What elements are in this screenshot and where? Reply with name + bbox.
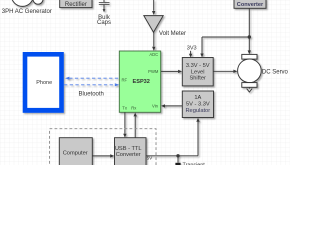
svg-text:Computer: Computer xyxy=(63,150,88,156)
svg-text:Level: Level xyxy=(191,69,205,75)
svg-text:USB - TTL: USB - TTL xyxy=(115,146,142,152)
junction: 5V rail node xyxy=(176,154,179,157)
junction: converter 5V node xyxy=(248,35,251,38)
level shifter U2: 3.3V - 5V Level Shifter xyxy=(182,58,213,86)
regulator U3: 1A 5V-3.3V Regulator xyxy=(182,91,213,118)
wire: 3V3 stub into level shifter LV pin xyxy=(190,51,192,54)
wire: regulator 3.3V out to ESP32 Vin xyxy=(165,105,183,107)
capacitor: bulk caps plates xyxy=(99,2,110,4)
motor M1: DC Servo body circle xyxy=(238,59,262,83)
volt meter triangle xyxy=(144,16,163,33)
wire: 5V rail up into regulator input xyxy=(197,122,199,156)
wire: USB-TTL up to ESP32 Rx xyxy=(134,116,136,138)
ground: open arrow below DC servo xyxy=(247,87,253,92)
wire: elbow down into level shifter HV pin xyxy=(201,37,203,54)
svg-text:PWM: PWM xyxy=(148,69,159,74)
svg-text:Rectifier: Rectifier xyxy=(65,2,87,8)
wire: 5V node horizontal to level shifter elbow xyxy=(202,36,249,38)
computer block xyxy=(59,138,92,170)
svg-text:Vin: Vin xyxy=(152,104,159,109)
generator G1 shaft circle xyxy=(33,0,43,4)
svg-text:Converter: Converter xyxy=(116,152,141,158)
svg-text:Transient: Transient xyxy=(183,162,206,165)
wire: level shifter to DC servo xyxy=(213,70,233,72)
svg-text:Volt Meter: Volt Meter xyxy=(159,31,186,37)
svg-text:Phone: Phone xyxy=(36,80,52,86)
svg-text:Shifter: Shifter xyxy=(189,76,206,82)
svg-text:1A: 1A xyxy=(194,95,201,101)
wire: 5V node down to DC servo xyxy=(248,37,250,51)
motor M1: DC Servo top terminal xyxy=(242,54,257,59)
wire: volt meter to ESP32 ADC xyxy=(153,32,155,47)
wire: bluetooth link ESP32 to phone (dashed, arrow at phone) xyxy=(69,77,119,79)
wire: computer to USB-TTL converter xyxy=(92,155,110,157)
svg-text:ADC: ADC xyxy=(149,52,158,57)
motor M1: DC Servo bottom terminal xyxy=(242,83,257,88)
wire: bluetooth link phone to ESP32 RF (dashed, arrow at ESP32) xyxy=(64,84,115,86)
phone: smartphone outline xyxy=(23,52,64,113)
svg-text:Rx: Rx xyxy=(131,106,137,111)
capacitor: bulk caps bottom lead with arrow xyxy=(103,5,105,10)
MCU U1: ESP32 block xyxy=(119,51,160,112)
converter block (top right, cut off) xyxy=(234,0,266,8)
wire: feed into volt meter from top xyxy=(153,0,155,11)
svg-text:3V3: 3V3 xyxy=(187,46,197,52)
rectifier block xyxy=(60,0,92,8)
USB-TTL converter block xyxy=(115,138,147,170)
svg-text:5V - 3.3V: 5V - 3.3V xyxy=(186,101,210,107)
diode D1: transient suppressor plate (cut off at bottom) xyxy=(175,163,180,166)
wire: converter down to 5V node xyxy=(248,8,250,37)
svg-text:ESP32: ESP32 xyxy=(132,79,149,85)
svg-text:Regulator: Regulator xyxy=(185,108,210,114)
svg-text:Converter: Converter xyxy=(237,2,264,8)
svg-text:DC Servo: DC Servo xyxy=(262,70,289,76)
capacitor: bulk caps top lead xyxy=(103,0,105,2)
svg-text:3PH AC Generator: 3PH AC Generator xyxy=(2,9,52,15)
svg-text:5V: 5V xyxy=(147,156,154,161)
svg-text:Caps: Caps xyxy=(97,20,111,26)
wire: node down to transient suppressor xyxy=(177,156,179,163)
wire: 5V rail horizontal from USB-TTL converter xyxy=(146,155,198,157)
generator G1: 3PH AC Generator circle (cut off at top) xyxy=(11,0,33,6)
wire: ESP32 Tx down to USB-TTL xyxy=(124,112,126,134)
wire: ESP32 PWM to level shifter xyxy=(161,70,178,72)
svg-text:RF: RF xyxy=(122,78,128,83)
svg-text:Bluetooth: Bluetooth xyxy=(79,92,104,98)
svg-text:3.3V - 5V: 3.3V - 5V xyxy=(186,63,210,69)
container: computer + USB-TTL dashed group xyxy=(50,129,157,175)
